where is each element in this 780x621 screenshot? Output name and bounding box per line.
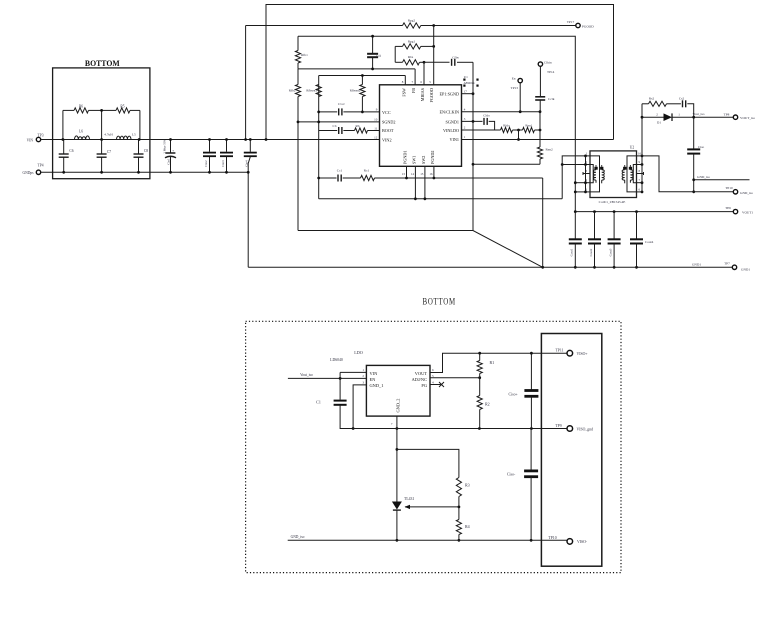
svg-text:TP6: TP6 [725, 206, 731, 210]
wire EN column to Ren2 [539, 112, 541, 147]
capacitor Cout2 [588, 212, 601, 269]
resistor R1 [477, 353, 494, 378]
svg-text:Cout2: Cout2 [589, 248, 593, 256]
svg-text:Cin2: Cin2 [204, 160, 208, 167]
wire primary bus [585, 156, 587, 192]
capacitor Cin4 [244, 138, 257, 267]
resistor Rpg1 [395, 40, 435, 63]
resistor R3 [456, 478, 469, 507]
svg-text:TP4: TP4 [38, 164, 44, 168]
svg-text:Rfb2: Rfb2 [289, 89, 296, 93]
capacitor C1 [316, 378, 353, 428]
wire FB row [298, 69, 415, 85]
wire SW bus vertical [318, 76, 320, 199]
svg-text:GND_iso: GND_iso [740, 191, 753, 195]
test point TP17 PGOOD [567, 20, 594, 28]
svg-text:VINLDO: VINLDO [443, 128, 459, 133]
svg-text:VOUT: VOUT [415, 371, 428, 376]
svg-text:C6: C6 [69, 149, 73, 153]
svg-text:GND_2: GND_2 [395, 399, 400, 413]
junction GND to Cin4 column [247, 171, 250, 174]
wire comp row Cc1 Rc1 [317, 169, 542, 182]
pin stub SW2 [424, 166, 427, 200]
test point TP14 Clkin [538, 60, 554, 74]
svg-text:Ciso-: Ciso- [507, 472, 516, 476]
wire pin4 row [574, 181, 590, 184]
wire VINLDO row [462, 129, 542, 132]
test point TP11 VISO+ [555, 349, 587, 356]
transformer primary winding [590, 156, 604, 192]
svg-text:VIN2: VIN2 [382, 137, 392, 142]
svg-text:TP11: TP11 [555, 349, 563, 353]
wire pin3 stub [583, 172, 590, 175]
svg-text:Rb: Rb [356, 124, 360, 128]
svg-text:C7: C7 [107, 150, 111, 154]
wire SGND2 row [298, 121, 380, 124]
capacitor Ciso [687, 117, 704, 193]
test point TP4 GNDps [23, 164, 44, 175]
wire VOUT up to VISO+ [430, 352, 568, 373]
capacitor C8 [134, 140, 149, 174]
svg-text:TP17: TP17 [567, 20, 575, 24]
op-amp U1 regulator IC body [380, 85, 462, 167]
pin numbers U1 top [402, 80, 432, 84]
wire FB bus lower [297, 121, 300, 231]
svg-text:R3: R3 [465, 483, 470, 488]
transformer secondary winding [622, 156, 636, 192]
svg-text:PGOOD: PGOOD [582, 24, 594, 28]
svg-text:FSW: FSW [401, 88, 406, 97]
svg-text:U2: U2 [630, 146, 635, 150]
svg-text:Cclk: Cclk [548, 97, 555, 101]
svg-text:Ren1: Ren1 [525, 124, 532, 128]
wire GND2 rail to TP9 [353, 427, 567, 430]
svg-text:EN/CLKIN: EN/CLKIN [439, 110, 459, 115]
pin stub PGND2 [433, 166, 436, 179]
resistor Ren1 [523, 124, 535, 133]
svg-text:GND_1: GND_1 [370, 383, 384, 388]
svg-text:C1: C1 [316, 400, 321, 405]
resistor R5 [102, 105, 140, 114]
pin numbers U2 right [638, 151, 642, 191]
dashed boundary box [246, 321, 621, 572]
svg-text:R5: R5 [120, 105, 124, 109]
wire Vout_iso entry [288, 373, 342, 380]
svg-text:11: 11 [374, 126, 377, 130]
pin numbers U1 left [374, 108, 378, 140]
wire MBIAS pin column [423, 62, 425, 85]
svg-text:17: 17 [464, 89, 468, 93]
test point TP10 GND_iso [725, 186, 753, 195]
resistor Rfb1 [295, 36, 308, 69]
svg-text:GND_iso: GND_iso [291, 535, 305, 539]
svg-text:Rfbsen2: Rfbsen2 [350, 89, 361, 93]
wire GND1 rail [248, 263, 734, 268]
svg-text:R1: R1 [490, 360, 495, 365]
svg-text:SGND2: SGND2 [382, 120, 396, 125]
svg-text:Cout1: Cout1 [570, 248, 574, 256]
wire filter mid vertical [100, 109, 103, 141]
LDO IC box [366, 365, 430, 416]
wire R3 branch [397, 449, 459, 477]
svg-text:TL431: TL431 [404, 497, 414, 501]
test point TP7 GND1 [724, 262, 750, 272]
svg-text:SW1: SW1 [412, 156, 417, 164]
svg-text:Cfbs: Cfbs [452, 55, 459, 59]
svg-text:Ciso: Ciso [698, 145, 705, 149]
svg-text:BOTTOM: BOTTOM [423, 298, 456, 308]
wire filter left vertical [62, 110, 65, 141]
svg-text:Rldo: Rldo [503, 124, 510, 128]
test point TP10 VISO- [548, 536, 587, 544]
svg-text:16: 16 [638, 151, 642, 155]
test point TP8 VOUT_iso [724, 113, 756, 120]
capacitor C6 [59, 140, 74, 174]
svg-text:VIN: VIN [370, 371, 379, 376]
svg-text:+: + [172, 149, 174, 153]
capacitor Cs2 [679, 97, 694, 118]
svg-text:MBIAS: MBIAS [420, 87, 425, 101]
wire secondary bus [641, 104, 644, 192]
svg-text:Rpg1: Rpg1 [408, 40, 416, 44]
shunt regulator TL431 [392, 497, 460, 542]
svg-text:VIN: VIN [27, 138, 34, 142]
wire to VIN EN pins [340, 372, 366, 378]
wire Rldo junction to VIN rail [517, 130, 520, 141]
svg-text:Ren2: Ren2 [546, 147, 553, 151]
capacitor Cfbs [452, 55, 460, 66]
resistor Rs2 [642, 97, 681, 107]
svg-text:GND_iso: GND_iso [697, 175, 710, 179]
capacitor C7 [97, 140, 112, 174]
wire GND input rail [41, 171, 249, 173]
wire primary pin2 row [562, 163, 590, 166]
capacitor Ciso- [507, 429, 538, 542]
svg-text:Vout_iso: Vout_iso [300, 373, 313, 377]
svg-text:EP1:SGND: EP1:SGND [439, 92, 459, 97]
wire pin6 row [574, 191, 590, 194]
svg-text:TP7: TP7 [724, 262, 730, 266]
svg-text:En: En [512, 76, 516, 80]
svg-text:Cin3: Cin3 [221, 160, 225, 167]
svg-text:Vout_iso: Vout_iso [693, 112, 705, 116]
svg-text:C8: C8 [144, 149, 148, 153]
svg-text:Rpg2: Rpg2 [408, 19, 416, 23]
wire SGND bus right vertical [472, 62, 474, 230]
wire PGOOD net to TP17 [244, 26, 576, 141]
svg-text:4.7uH: 4.7uH [104, 133, 113, 137]
capacitor Cout4 [630, 212, 654, 269]
resistor Ren2 [537, 147, 553, 164]
svg-text:GNDps: GNDps [23, 171, 35, 175]
pin stub PGND1 [405, 166, 408, 179]
capacitor Cin2 [203, 138, 216, 174]
wire filter right vertical [138, 110, 141, 141]
svg-text:Cin4: Cin4 [245, 160, 249, 167]
wire SGND1 row with Cldo [462, 114, 495, 131]
transformer U2 box [590, 146, 637, 198]
svg-text:Rfbsen1: Rfbsen1 [306, 89, 317, 93]
wire PGOOD column [433, 26, 435, 85]
wire FB bus bottom corner [298, 231, 543, 268]
svg-text:D1: D1 [657, 120, 661, 124]
wire MBIAS row Rbs Cfbs [395, 61, 473, 64]
svg-text:L5: L5 [132, 133, 136, 137]
diode D1 [642, 112, 736, 124]
svg-text:R4: R4 [465, 524, 470, 529]
inductor L5 4.7uH [104, 133, 136, 140]
wire SW row [319, 198, 563, 200]
svg-text:FB: FB [411, 88, 416, 93]
resistor Rfb2 [289, 69, 301, 122]
svg-text:BOTTOM: BOTTOM [85, 59, 120, 68]
resistor Rldo [501, 124, 513, 133]
svg-text:13: 13 [402, 172, 406, 176]
svg-text:BOOT: BOOT [382, 128, 394, 133]
svg-text:R6: R6 [79, 105, 83, 109]
PG no-connect X [430, 382, 444, 387]
resistor Rc1 [361, 169, 375, 181]
svg-text:14: 14 [411, 172, 415, 176]
wire PGND drop and GND diagonal [541, 178, 544, 269]
svg-text:CoilCr_ZB1545.4E: CoilCr_ZB1545.4E [599, 200, 626, 204]
svg-text:16: 16 [429, 172, 433, 176]
wire SW to transformer primary [561, 155, 590, 199]
svg-text:12: 12 [374, 135, 378, 139]
wire secondary to TP10 [642, 156, 736, 192]
svg-text:TP10: TP10 [548, 536, 556, 540]
svg-text:GND1: GND1 [741, 268, 750, 272]
wire VIN loop rectangle [265, 5, 614, 141]
svg-text:ADJ/NC: ADJ/NC [412, 377, 427, 382]
label BOTTOM lower section [423, 298, 456, 308]
svg-text:U1: U1 [464, 75, 468, 79]
resistor R4 [456, 507, 469, 542]
capacitor Cff [367, 35, 381, 71]
wire VOUT sense top [298, 36, 575, 211]
transformer label CoilCr_ZB1545.4E [599, 200, 626, 204]
resistor R2 [477, 378, 490, 429]
connector box VISO [541, 334, 601, 567]
svg-text:TP3: TP3 [38, 134, 44, 138]
svg-text:Rbs: Rbs [408, 55, 414, 59]
svg-text:SW2: SW2 [421, 156, 426, 164]
LDO labels [330, 350, 363, 362]
svg-text:Rfb1: Rfb1 [301, 53, 308, 57]
wire GND_1 drop [352, 385, 367, 430]
capacitor Cb resistor Rb BOOT [319, 124, 380, 134]
capacitor Cout1 [569, 212, 582, 269]
svg-text:TP9: TP9 [555, 424, 561, 428]
svg-text:Cc1: Cc1 [337, 169, 343, 173]
wire TL431 column top [396, 429, 399, 502]
wire GND_2 stub [396, 416, 399, 430]
svg-text:GND1: GND1 [692, 263, 701, 267]
svg-text:Rs2: Rs2 [649, 97, 655, 101]
resistor Rfbsen1 [306, 85, 321, 97]
pin numbers U1 right [464, 89, 468, 139]
svg-text:PGOOD: PGOOD [429, 88, 434, 102]
pin stub SW1 [414, 166, 417, 200]
wire VOUT1 row [574, 210, 736, 213]
svg-text:15: 15 [420, 172, 424, 176]
wire EN/CLKIN row [462, 110, 542, 113]
svg-text:Cs2: Cs2 [679, 97, 685, 101]
svg-text:SGND1: SGND1 [446, 119, 460, 124]
svg-text:VIN1: VIN1 [449, 137, 459, 142]
capacitor Cin1 electrolytic [162, 138, 176, 174]
input filter box BOTTOM [53, 59, 150, 179]
test point TP6 VOUT1 [725, 206, 753, 214]
wire EP1 SGND row [462, 92, 475, 95]
svg-text:LDO: LDO [354, 350, 363, 355]
svg-text:VISO_gnd: VISO_gnd [577, 428, 594, 432]
capacitor Cclk [535, 66, 555, 111]
svg-text:Cb: Cb [333, 124, 337, 128]
wire VIN rail input [41, 139, 380, 141]
resistor R6 [63, 105, 102, 114]
wire ADJ row [430, 376, 481, 379]
test point TP3 VIN [27, 134, 44, 143]
svg-text:TP8: TP8 [724, 113, 730, 117]
wire FSW row [319, 76, 406, 85]
wire GND_iso stub [694, 175, 750, 180]
wire Ren2 row to SGND bus [472, 163, 540, 166]
capacitor Cvcc [317, 102, 379, 115]
svg-text:EN: EN [370, 377, 377, 382]
inductor L6 [75, 129, 90, 139]
svg-text:Cout4: Cout4 [645, 240, 654, 244]
test point TP13 En [511, 76, 523, 111]
test point TP9 VISO_gnd [555, 424, 593, 431]
svg-text:PGND2: PGND2 [430, 151, 435, 165]
pin numbers U2 left [586, 151, 588, 191]
resistor Rfbsen2 [350, 74, 365, 113]
svg-text:R2: R2 [485, 402, 490, 407]
svg-text:L6: L6 [79, 129, 83, 133]
svg-text:TP14: TP14 [547, 70, 555, 74]
svg-text:Cout3: Cout3 [608, 248, 612, 256]
svg-text:VOUT_iso: VOUT_iso [740, 116, 755, 120]
resistor Rpg2 [403, 19, 436, 29]
capacitor Cout3 [608, 212, 621, 269]
svg-text:Cvcc: Cvcc [338, 102, 345, 106]
svg-text:LD6040: LD6040 [330, 358, 343, 362]
svg-text:VISO-: VISO- [577, 540, 588, 544]
svg-text:Cin1: Cin1 [167, 158, 171, 165]
svg-text:VISO+: VISO+ [577, 352, 588, 356]
svg-text:10: 10 [374, 118, 378, 122]
wire secondary pin rows [637, 163, 644, 193]
svg-text:Clkin: Clkin [544, 60, 552, 64]
LDO pin numbers [362, 368, 434, 426]
svg-text:PG: PG [421, 383, 427, 388]
svg-text:Cldo: Cldo [483, 114, 490, 118]
svg-text:PGND1: PGND1 [403, 151, 408, 165]
svg-text:TP13: TP13 [511, 86, 519, 90]
svg-text:VOUT1: VOUT1 [742, 210, 753, 214]
svg-text:1 Mue 50V: 1 Mue 50V [162, 139, 166, 154]
svg-text:VCC: VCC [382, 110, 391, 115]
resistor Rbs [403, 55, 420, 65]
svg-text:TP10: TP10 [725, 186, 733, 190]
wire GND_iso rail [288, 535, 568, 541]
wire secondary pin16 row [637, 155, 644, 158]
svg-text:Rc1: Rc1 [364, 169, 370, 173]
capacitor Ciso+ [509, 353, 539, 428]
pin numbers U1 bottom [402, 172, 433, 176]
U1 refdes and part number [463, 75, 478, 87]
svg-text:Ciso+: Ciso+ [509, 393, 518, 397]
capacitor Cin3 [220, 138, 233, 174]
wire VIN1 row right [462, 139, 614, 141]
